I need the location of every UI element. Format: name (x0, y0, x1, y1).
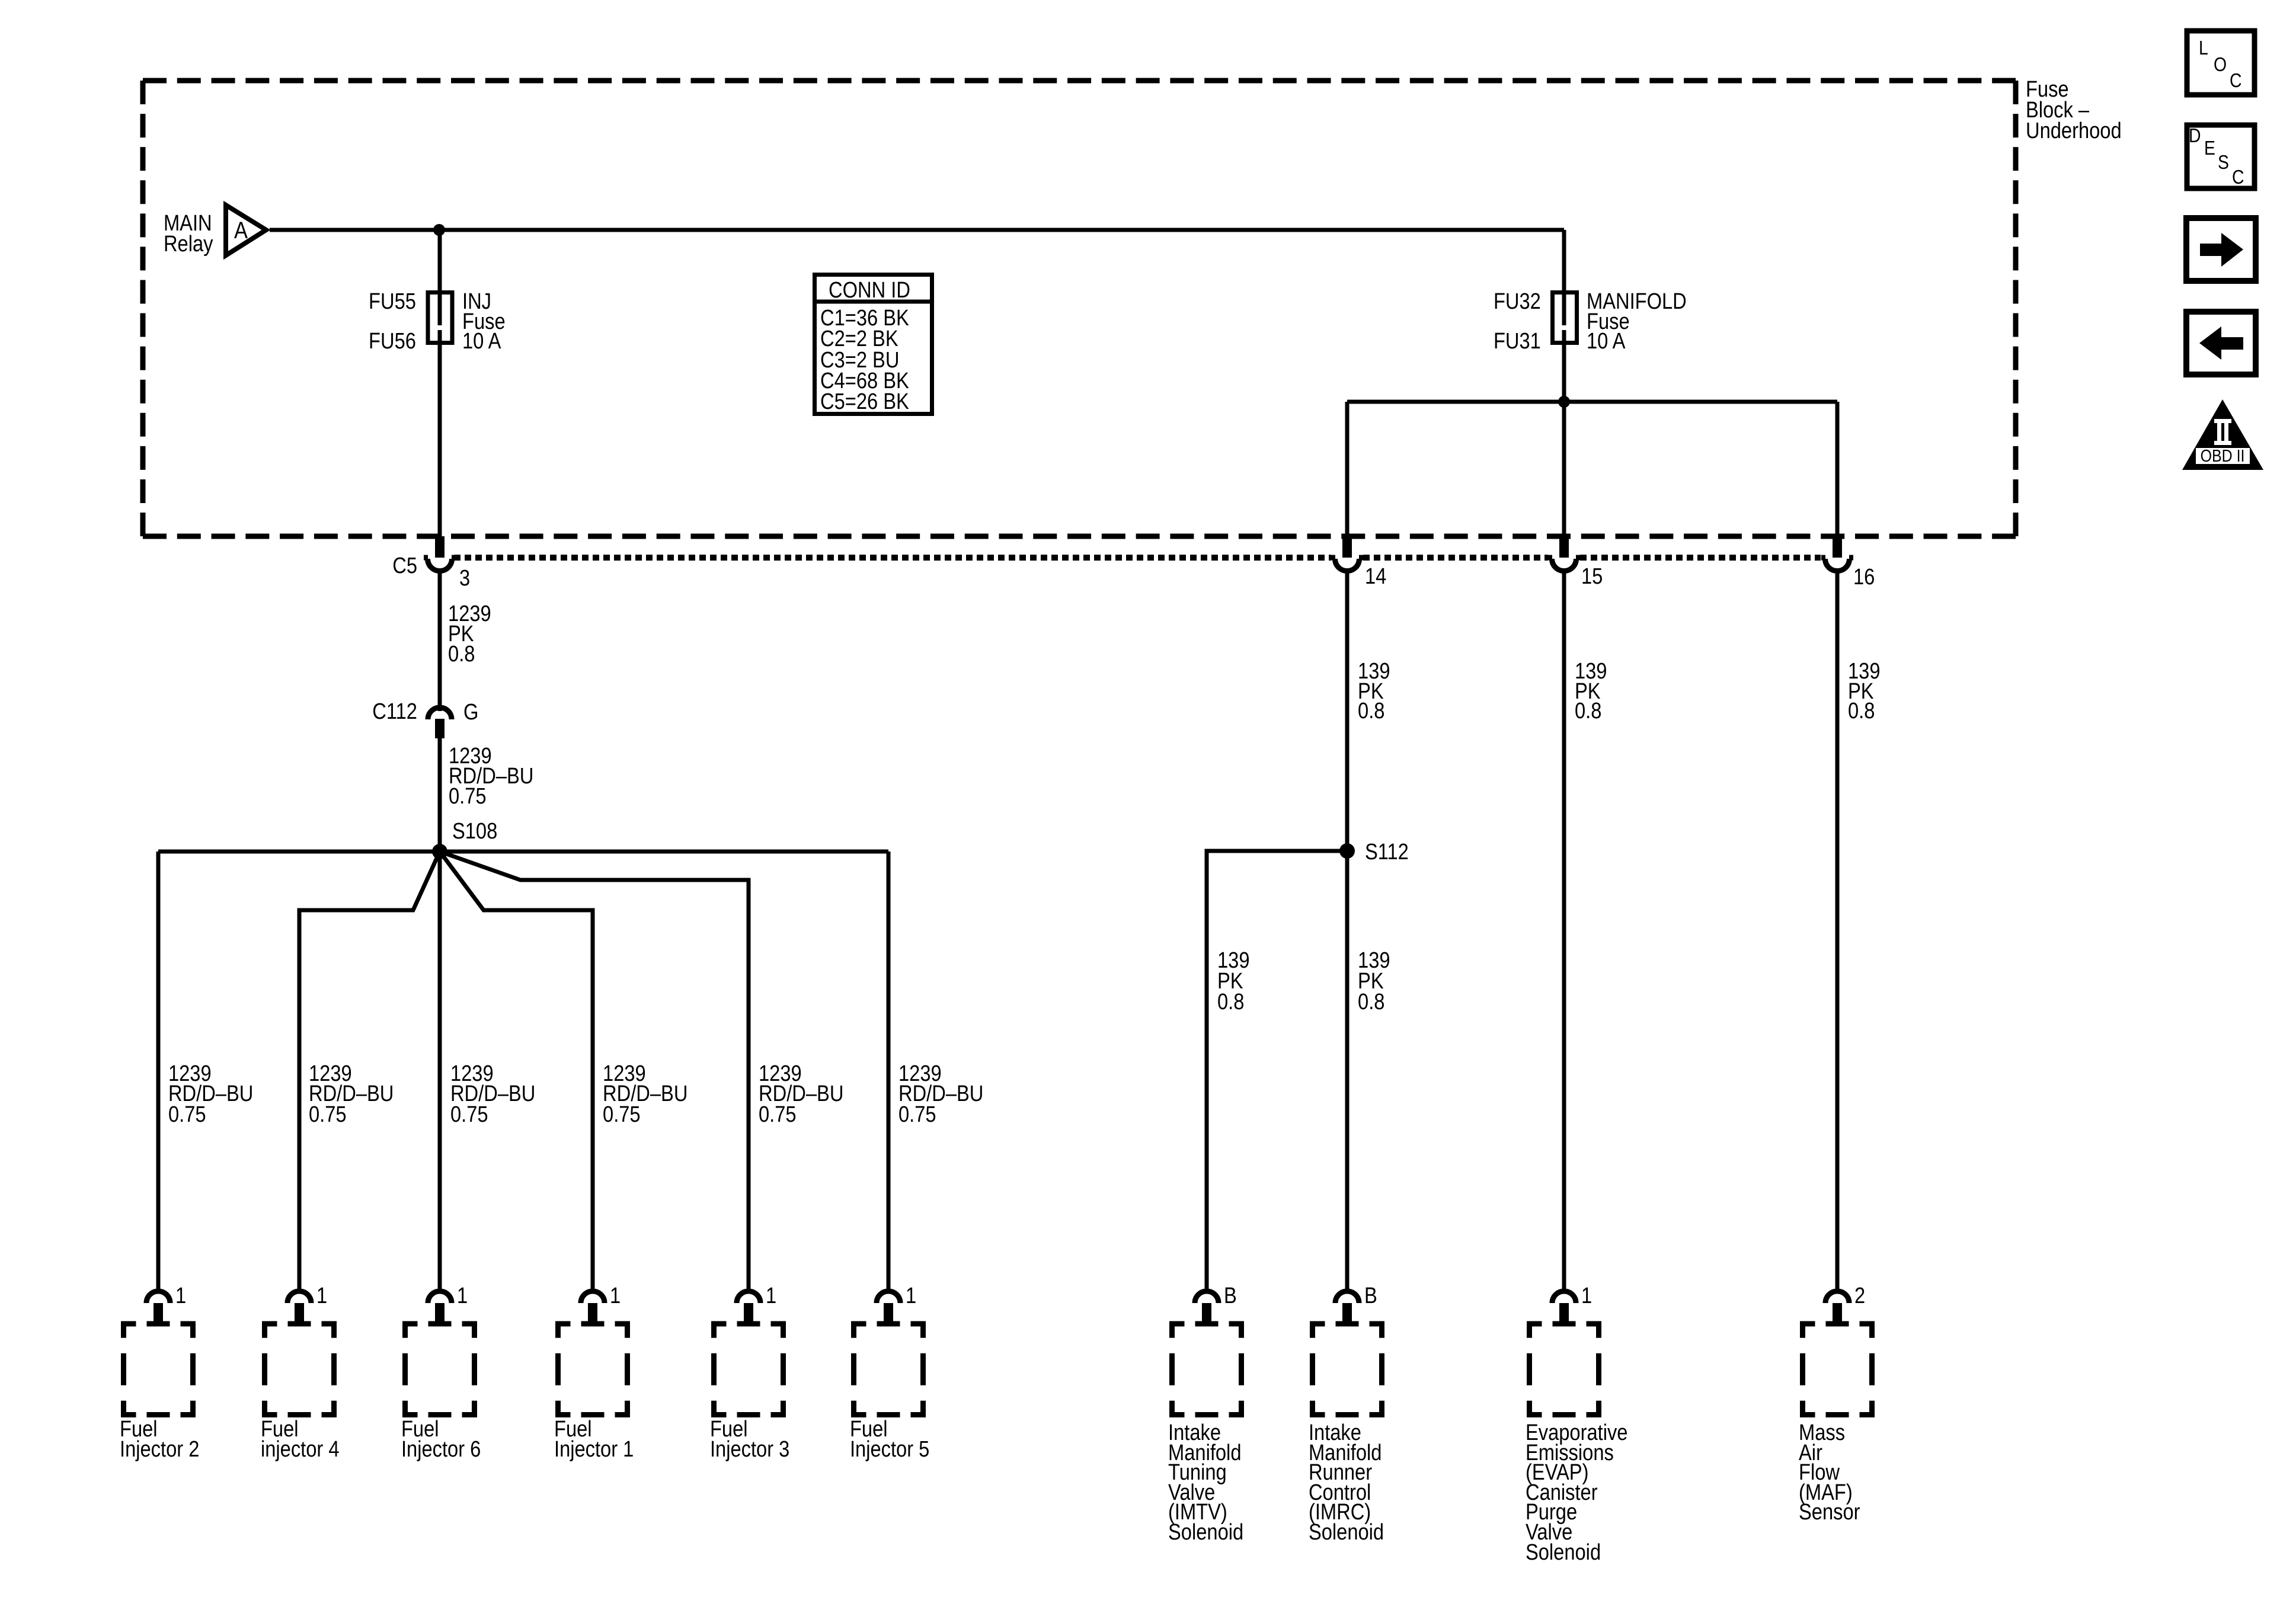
wire: drop to MANIFOLD fuse (1562, 230, 1566, 325)
component box: Fuel injector 4 (262, 1321, 337, 1418)
wire labels 139 PK 0.8 (upper) (1217, 658, 1880, 1014)
wire S112 to IMRC (1345, 851, 1350, 1291)
svg-text:0.8: 0.8 (1358, 698, 1384, 724)
svg-text:1: 1 (175, 1283, 186, 1308)
component label: Fuel Injector 5 (850, 1416, 929, 1462)
svg-text:Injector 6: Injector 6 (401, 1436, 481, 1462)
svg-text:C: C (2230, 69, 2241, 92)
component label: Intake Manifold Tuning Valve (IMTV) Solenoid (1168, 1420, 1243, 1545)
component connector: Mass Air Flow (MAF) Sensor (1825, 1291, 1849, 1303)
svg-text:Solenoid: Solenoid (1526, 1539, 1601, 1565)
splice S108 (432, 844, 447, 859)
node: junction under MANIFOLD fuse (1558, 396, 1570, 408)
svg-text:Sensor: Sensor (1799, 1499, 1860, 1525)
component connector: Intake Manifold Tuning Valve (IMTV) Solenoid (1195, 1291, 1219, 1303)
fuse FU55/FU56 INJ Fuse 10 A (428, 293, 452, 343)
connector pin 16 terminal (1833, 536, 1842, 558)
wire to Fuel Injector 3 (440, 852, 749, 1291)
wire: INJ fuse to connector C5 (438, 330, 442, 537)
connector pin 3 terminal (435, 536, 445, 558)
connector C112 pin G (428, 708, 452, 719)
svg-text:E: E (2204, 137, 2215, 159)
wire labels 1239 RD/D-BU 0.75 (injector feeds) (168, 1061, 983, 1127)
svg-text:OBD II: OBD II (2201, 446, 2245, 465)
svg-text:FU31: FU31 (1494, 328, 1541, 354)
svg-text:0.75: 0.75 (603, 1102, 641, 1127)
component label: Intake Manifold Runner Control (IMRC) Solenoid (1309, 1420, 1384, 1545)
icon back arrow box (2186, 312, 2256, 375)
wire bus at S108 (158, 850, 888, 854)
svg-text:Injector 5: Injector 5 (850, 1436, 929, 1462)
wire: branch bus to pins 14/15/16 (1347, 400, 1837, 404)
icon DESC box (2187, 125, 2255, 188)
svg-text:G: G (463, 699, 478, 725)
svg-text:0.75: 0.75 (759, 1102, 797, 1127)
svg-text:C112: C112 (372, 699, 417, 724)
wire pin 14 down to S112 (1345, 572, 1350, 851)
svg-text:2: 2 (1854, 1283, 1865, 1308)
svg-text:B: B (1224, 1283, 1237, 1308)
node: junction at FU55 tap (433, 224, 445, 236)
Fuse Block - Underhood dashed box border (143, 81, 2016, 536)
splice S112 (1339, 843, 1355, 859)
svg-text:0.8: 0.8 (1575, 698, 1601, 724)
MAIN Relay output symbol A (triangle) (226, 205, 266, 255)
svg-text:1: 1 (457, 1283, 468, 1308)
svg-text:1: 1 (766, 1283, 776, 1308)
icon OBD II triangle (2182, 399, 2263, 470)
svg-text:CONN ID: CONN ID (829, 277, 910, 303)
wire 1239 RD/D-BU 0.75 from C112 to S108 (438, 738, 442, 852)
svg-text:15: 15 (1581, 564, 1603, 589)
svg-text:14: 14 (1365, 564, 1386, 589)
wire pin 15 to EVAP solenoid (1562, 572, 1566, 1291)
component label: Evaporative Emissions (EVAP) Canister Purge Valve Solenoid (1526, 1420, 1627, 1565)
component label: Fuel Injector 3 (710, 1416, 789, 1462)
svg-text:0.8: 0.8 (448, 641, 475, 667)
component connector: Fuel Injector 2 (146, 1291, 170, 1303)
svg-text:1: 1 (1581, 1283, 1592, 1308)
label Fuse Block - Underhood (2026, 76, 2122, 143)
component connector: Fuel Injector 3 (737, 1291, 760, 1303)
component connector: Fuel injector 4 (287, 1291, 311, 1303)
svg-text:S108: S108 (452, 818, 497, 844)
component box: Fuel Injector 2 (121, 1321, 196, 1418)
svg-text:10 A: 10 A (1587, 328, 1626, 354)
svg-text:16: 16 (1853, 564, 1875, 590)
svg-text:0.75: 0.75 (450, 1102, 488, 1127)
svg-text:FU55: FU55 (369, 289, 416, 314)
svg-text:S112: S112 (1365, 839, 1409, 865)
svg-text:S: S (2218, 151, 2229, 174)
svg-text:0.8: 0.8 (1217, 989, 1244, 1014)
svg-text:Injector 3: Injector 3 (710, 1436, 789, 1462)
svg-text:1: 1 (610, 1283, 621, 1308)
fuse FU32/FU31 MANIFOLD Fuse 10 A (1553, 293, 1577, 343)
wire to Fuel injector 4 (299, 852, 440, 1291)
svg-text:1: 1 (906, 1283, 916, 1308)
svg-text:0.8: 0.8 (1848, 698, 1875, 724)
svg-text:FU32: FU32 (1494, 289, 1541, 314)
component box: Fuel Injector 6 (402, 1321, 477, 1418)
wire to Fuel Injector 2 (156, 852, 161, 1291)
svg-text:10 A: 10 A (462, 328, 501, 354)
component connector: Fuel Injector 5 (877, 1291, 900, 1303)
svg-text:0.75: 0.75 (449, 783, 487, 809)
component connector: Intake Manifold Runner Control (IMRC) Solenoid (1335, 1291, 1359, 1303)
component connector: Evaporative Emissions (EVAP) Canister Purge Valve Solenoid (1552, 1291, 1576, 1303)
svg-text:0.75: 0.75 (309, 1102, 347, 1127)
svg-text:D: D (2189, 124, 2201, 147)
svg-text:1: 1 (316, 1283, 327, 1308)
wire pin 16 to MAF sensor (1835, 572, 1840, 1291)
wire to Fuel Injector 1 (440, 852, 593, 1291)
component label: Fuel Injector 6 (401, 1416, 481, 1462)
svg-text:Underhood: Underhood (2026, 118, 2122, 143)
svg-text:C: C (2232, 166, 2244, 188)
svg-text:0.75: 0.75 (168, 1102, 206, 1127)
svg-text:0.75: 0.75 (898, 1102, 936, 1127)
wire 1239 PK 0.8 from C5 to C112 (438, 572, 442, 711)
wire: main feed from MAIN Relay A across top (270, 228, 1564, 232)
component label: Fuel Injector 2 (120, 1416, 199, 1462)
connector interface dotted line (454, 555, 1821, 561)
svg-text:Injector 1: Injector 1 (554, 1436, 634, 1462)
wire: drop to INJ fuse (438, 230, 442, 325)
svg-text:B: B (1364, 1283, 1377, 1308)
connector pin 15 terminal (1559, 536, 1569, 558)
svg-text:L: L (2199, 37, 2208, 59)
component connector: Fuel Injector 6 (428, 1291, 452, 1303)
svg-text:Solenoid: Solenoid (1309, 1519, 1384, 1545)
icon forward arrow box (2186, 218, 2256, 281)
component box: Fuel Injector 3 (711, 1321, 786, 1418)
component box: Intake Manifold Tuning Valve (IMTV) Solenoid (1169, 1321, 1244, 1418)
connector pin 14 terminal (1342, 536, 1352, 558)
component box: Fuel Injector 1 (555, 1321, 630, 1418)
svg-text:C5=26 BK: C5=26 BK (820, 389, 909, 414)
svg-text:C5: C5 (392, 553, 417, 578)
component label: Fuel Injector 1 (554, 1416, 634, 1462)
svg-text:O: O (2214, 53, 2227, 76)
wire to Fuel Injector 6 (438, 852, 442, 1291)
component label: Fuel injector 4 (261, 1416, 340, 1462)
wire to Fuel Injector 5 (887, 852, 891, 1291)
CONN ID table (815, 275, 932, 414)
component label: Mass Air Flow (MAF) Sensor (1799, 1420, 1860, 1525)
icon LOC box (2187, 31, 2255, 95)
component box: Mass Air Flow (MAF) Sensor (1800, 1321, 1875, 1418)
svg-text:Relay: Relay (164, 231, 213, 257)
svg-text:Injector 2: Injector 2 (120, 1436, 199, 1462)
wire S112 branch to IMTV (1207, 851, 1347, 1291)
component box: Fuel Injector 5 (851, 1321, 926, 1418)
svg-text:injector 4: injector 4 (261, 1436, 340, 1462)
svg-text:3: 3 (459, 565, 470, 591)
component connector: Fuel Injector 1 (581, 1291, 605, 1303)
component box: Intake Manifold Runner Control (IMRC) Solenoid (1310, 1321, 1384, 1418)
svg-text:A: A (234, 217, 248, 244)
svg-text:Solenoid: Solenoid (1168, 1519, 1243, 1545)
component box: Evaporative Emissions (EVAP) Canister Purge Valve Solenoid (1527, 1321, 1601, 1418)
svg-text:FU56: FU56 (369, 328, 416, 354)
svg-text:0.8: 0.8 (1358, 989, 1384, 1014)
